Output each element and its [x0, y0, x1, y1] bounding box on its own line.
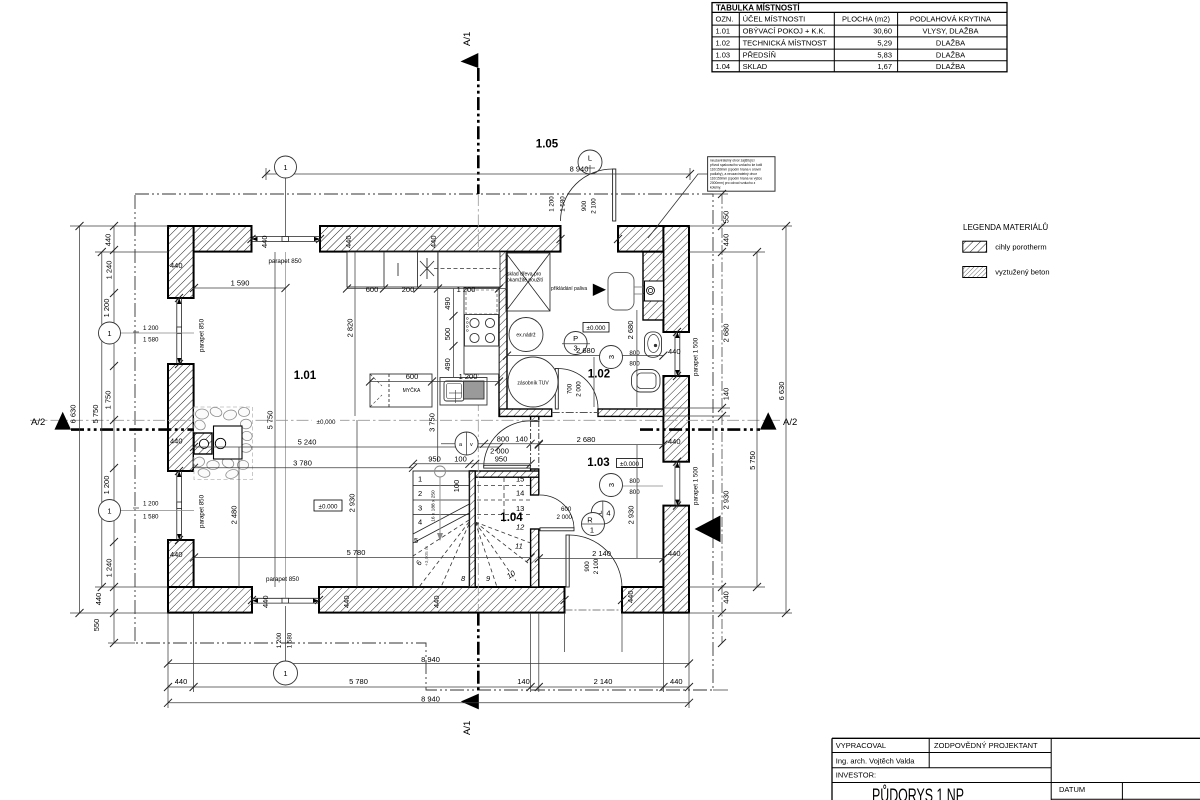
- svg-text:v: v: [470, 442, 473, 448]
- svg-text:1 200: 1 200: [457, 285, 476, 294]
- svg-text:100: 100: [454, 455, 467, 464]
- 1.02 window bubble 3: [600, 346, 641, 369]
- svg-text:VYPRACOVAL: VYPRACOVAL: [836, 741, 886, 750]
- svg-text:4: 4: [418, 518, 422, 527]
- svg-text:1 240: 1 240: [105, 559, 114, 578]
- ex.nadrz circle: [509, 318, 543, 352]
- svg-text:parapet 1 500: parapet 1 500: [693, 466, 700, 505]
- svg-text:440: 440: [668, 437, 681, 446]
- svg-text:1 750: 1 750: [104, 391, 113, 410]
- svg-text:2 000: 2 000: [576, 381, 583, 397]
- wall south seg2: [319, 587, 565, 613]
- level mark 1.03 boxed: [617, 459, 643, 468]
- wall B seg2: [531, 469, 539, 495]
- wall west seg3: [168, 540, 194, 613]
- svg-text:30,60: 30,60: [873, 27, 892, 36]
- wall east seg2: [663, 376, 689, 462]
- svg-text:2 100: 2 100: [593, 558, 600, 574]
- svg-text:podlahy), a neuzavíratelný otv: podlahy), a neuzavíratelný otvor: [710, 172, 758, 176]
- level mark 1.02 boxed: [583, 323, 609, 333]
- svg-text:1.02: 1.02: [716, 39, 731, 48]
- svg-text:6 630: 6 630: [69, 405, 78, 424]
- svg-text:5 240: 5 240: [298, 438, 317, 447]
- 1.03 window bubble 3: [600, 474, 664, 497]
- 1.02 sink: [645, 332, 662, 357]
- 1.02 wood storage crossed box: [506, 253, 550, 311]
- svg-text:440: 440: [429, 235, 438, 248]
- window V2 west lower: [177, 471, 182, 540]
- svg-text:3: 3: [418, 504, 422, 513]
- svg-text:440: 440: [260, 235, 269, 248]
- room table TABULKA MISTNOSTI: [712, 3, 1007, 72]
- svg-text:11: 11: [515, 542, 523, 551]
- svg-text:1.04: 1.04: [716, 62, 731, 71]
- 1.02 vertical dim 2680: [626, 310, 637, 407]
- bottom chain line2 segments: [164, 677, 693, 691]
- stair tread numbers: [414, 475, 525, 584]
- svg-text:+3,005 m: +3,005 m: [424, 546, 430, 566]
- svg-text:1: 1: [107, 329, 111, 338]
- stairs walking line: [435, 466, 446, 541]
- window E1 east upper: [675, 332, 680, 376]
- kitchen sink unit: [440, 378, 487, 406]
- zasobnik TUV circle: [508, 357, 558, 407]
- svg-text:2000mm) pro odvod vzduchu z: 2000mm) pro odvod vzduchu z: [710, 181, 756, 185]
- svg-text:ex.nádrž: ex.nádrž: [516, 333, 536, 339]
- section line A/1: [461, 32, 479, 735]
- svg-text:1.03: 1.03: [716, 50, 731, 59]
- svg-text:5: 5: [414, 536, 418, 545]
- right inner chain: [718, 190, 731, 647]
- svg-text:přikládání paliva: přikládání paliva: [551, 286, 587, 292]
- svg-text:vyztužený beton: vyztužený beton: [995, 268, 1049, 277]
- svg-text:1 590: 1 590: [231, 279, 250, 288]
- svg-text:1 580: 1 580: [287, 632, 294, 648]
- svg-text:1: 1: [590, 526, 594, 535]
- svg-text:440: 440: [722, 234, 731, 247]
- svg-text:2 930: 2 930: [348, 494, 357, 513]
- svg-text:zásobník TUV: zásobník TUV: [517, 381, 549, 387]
- svg-text:140: 140: [517, 677, 530, 686]
- door north to 1.05: [561, 169, 616, 221]
- svg-text:parapet 850: parapet 850: [199, 494, 206, 528]
- svg-text:3 750: 3 750: [428, 413, 437, 432]
- 1.03 dim 2680: [535, 435, 668, 449]
- top dimension chain 8940: [262, 165, 694, 179]
- svg-text:100: 100: [452, 480, 461, 493]
- svg-text:490: 490: [443, 297, 452, 310]
- svg-text:±0.000: ±0.000: [319, 504, 338, 511]
- svg-text:1 240: 1 240: [105, 261, 114, 280]
- svg-text:1: 1: [418, 475, 422, 484]
- svg-text:INVESTOR:: INVESTOR:: [836, 771, 876, 780]
- svg-text:2 820: 2 820: [346, 319, 355, 338]
- svg-text:OBÝVACÍ POKOJ + K.K.: OBÝVACÍ POKOJ + K.K.: [743, 27, 826, 36]
- svg-text:8 940: 8 940: [421, 694, 440, 703]
- svg-text:440: 440: [670, 677, 683, 686]
- wall A kitchen/1.02 divider: [499, 252, 507, 417]
- svg-text:2 100: 2 100: [591, 198, 598, 214]
- svg-text:2 480: 2 480: [230, 506, 239, 525]
- svg-text:5 750: 5 750: [91, 405, 100, 424]
- wall west seg2: [168, 364, 194, 471]
- svg-text:5,83: 5,83: [877, 50, 892, 59]
- legend LEGENDA MATERIALU: [963, 223, 1050, 278]
- svg-text:A/2: A/2: [31, 417, 45, 428]
- 1.01 interior dims: [190, 252, 535, 587]
- entry arrow triangle: [695, 515, 721, 542]
- stair spine wall: [469, 471, 475, 587]
- svg-text:15: 15: [516, 475, 524, 484]
- 1.02 small texts: [507, 272, 587, 387]
- svg-text:1 580: 1 580: [560, 196, 567, 212]
- svg-text:950: 950: [428, 455, 441, 464]
- 1.04 overhead dashed treads: [475, 477, 530, 587]
- svg-text:1 200: 1 200: [276, 632, 283, 648]
- svg-text:DATUM: DATUM: [1059, 785, 1085, 794]
- chimney flue circle: [647, 287, 655, 295]
- svg-text:800: 800: [629, 478, 640, 485]
- svg-text:cihly porotherm: cihly porotherm: [995, 242, 1046, 251]
- svg-text:5 750: 5 750: [748, 451, 757, 470]
- svg-text:140: 140: [515, 435, 528, 444]
- 1.03 dim 2140: [535, 549, 668, 562]
- wall north seg2: [320, 226, 561, 252]
- svg-text:800: 800: [497, 435, 510, 444]
- left outer chain 6630: [69, 222, 84, 617]
- svg-text:2 680: 2 680: [576, 346, 595, 355]
- svg-text:800: 800: [629, 489, 640, 496]
- door 1.02 to 1.03: [552, 369, 598, 413]
- left inner chain: [92, 222, 118, 647]
- svg-text:5 780: 5 780: [349, 677, 368, 686]
- svg-text:PŮDORYS 1 NP: PŮDORYS 1 NP: [872, 785, 964, 800]
- svg-text:440: 440: [94, 593, 103, 606]
- svg-text:440: 440: [344, 235, 353, 248]
- svg-text:SKLAD: SKLAD: [743, 62, 768, 71]
- svg-text:4: 4: [606, 509, 610, 518]
- svg-text:P: P: [573, 334, 578, 343]
- extension lines: [70, 168, 792, 708]
- fireplace stone surround: [192, 406, 253, 480]
- svg-text:440: 440: [668, 549, 681, 558]
- kitchen dim 3750: [428, 252, 438, 462]
- entrance door south: [565, 535, 623, 610]
- svg-text:950: 950: [495, 455, 508, 464]
- svg-text:1,67: 1,67: [877, 62, 892, 71]
- svg-text:2: 2: [418, 489, 422, 498]
- right middle chain 5750: [748, 248, 761, 591]
- kitchen island dishwasher MYCKA: [370, 374, 432, 407]
- svg-text:440: 440: [104, 234, 113, 247]
- svg-text:14: 14: [516, 489, 524, 498]
- stove with burners: [465, 315, 499, 347]
- svg-text:1 200: 1 200: [143, 501, 159, 508]
- level mark 1.01 boxed: [314, 500, 342, 511]
- grid bubble 1 left upper: [99, 322, 195, 344]
- chimney note box: [648, 157, 775, 238]
- svg-text:900: 900: [584, 561, 591, 572]
- svg-text:5,29: 5,29: [877, 39, 892, 48]
- svg-text:2 140: 2 140: [594, 677, 613, 686]
- stairs winder dashed treads left: [413, 520, 469, 587]
- svg-text:2 680: 2 680: [626, 321, 635, 340]
- grid bubble 1 bottom: [274, 606, 298, 685]
- svg-text:440: 440: [626, 590, 635, 603]
- svg-text:490: 490: [443, 358, 452, 371]
- stairs lower flight treads: [413, 471, 469, 587]
- svg-text:1 200: 1 200: [459, 372, 478, 381]
- svg-text:140: 140: [722, 388, 731, 401]
- roof overhang dash-dot outline: [135, 194, 713, 690]
- svg-text:parapet 1 500: parapet 1 500: [693, 337, 700, 376]
- svg-text:1 200: 1 200: [143, 325, 159, 332]
- svg-text:1.01: 1.01: [294, 370, 317, 382]
- svg-text:800: 800: [629, 350, 640, 357]
- wall 1.02 bottom left: [500, 409, 552, 416]
- 1.03 vertical dim 2930: [627, 445, 638, 559]
- wall B seg3: [531, 529, 539, 587]
- svg-text:parapet 850: parapet 850: [199, 318, 206, 352]
- left middle chain 5750: [91, 248, 106, 591]
- svg-text:3: 3: [607, 483, 616, 487]
- bottom chain line3 8940: [164, 694, 693, 707]
- grid bubble 1 top: [275, 156, 297, 598]
- svg-text:440: 440: [722, 591, 731, 604]
- kitchen right counter band: [464, 288, 499, 374]
- svg-text:440: 440: [170, 550, 183, 559]
- svg-text:1.01: 1.01: [716, 27, 731, 36]
- wall east seg1: [663, 226, 689, 332]
- svg-text:3 780: 3 780: [293, 459, 312, 468]
- jamb tick marks: [175, 235, 681, 604]
- svg-text:A/1: A/1: [462, 721, 473, 735]
- svg-text:1 200: 1 200: [102, 476, 111, 495]
- svg-text:2 140: 2 140: [592, 549, 611, 558]
- title block: [832, 738, 1200, 800]
- svg-text:DLAŽBA: DLAŽBA: [936, 62, 965, 71]
- svg-text:8 940: 8 940: [421, 655, 440, 664]
- fireplace insert: [214, 426, 243, 459]
- right outer chain 6630: [777, 222, 790, 617]
- svg-text:2 000: 2 000: [557, 514, 573, 521]
- svg-text:Ing. arch. Vojtěch Valda: Ing. arch. Vojtěch Valda: [836, 756, 915, 765]
- grid bubble 1 left lower: [99, 500, 195, 522]
- svg-text:LEGENDA MATERIÁLŮ: LEGENDA MATERIÁLŮ: [963, 223, 1048, 232]
- svg-text:440: 440: [170, 261, 183, 270]
- svg-text:440: 440: [668, 347, 681, 356]
- svg-text:550: 550: [92, 619, 101, 632]
- svg-text:440: 440: [342, 595, 351, 608]
- door 1.03 to 1.04: [540, 495, 574, 531]
- door 1.03 to landing 800/2000: [484, 421, 531, 468]
- svg-text:±0.000: ±0.000: [620, 461, 639, 468]
- svg-text:550: 550: [722, 211, 731, 224]
- 1.02 boiler: [608, 273, 634, 310]
- svg-text:1: 1: [283, 163, 287, 172]
- svg-text:600: 600: [561, 506, 572, 513]
- window E2 east lower: [675, 462, 680, 506]
- svg-text:OZN.: OZN.: [716, 14, 734, 23]
- svg-text:2 680: 2 680: [722, 324, 731, 343]
- wall east seg3: [663, 506, 689, 613]
- stair landing dims 950/100/950: [409, 455, 535, 493]
- svg-text:R: R: [587, 516, 593, 525]
- wall south seg1: [168, 587, 252, 613]
- wall north seg1: [168, 226, 252, 252]
- fireplace stub wall: [194, 433, 212, 454]
- svg-text:VLYSY, DLAŽBA: VLYSY, DLAŽBA: [922, 27, 978, 36]
- svg-text:200: 200: [402, 285, 415, 294]
- door type bubble L: [578, 150, 602, 174]
- chimney block: [643, 252, 663, 320]
- landing marker bubble: [455, 432, 478, 455]
- section line A/2: [30, 412, 797, 430]
- 1.02 toilet: [632, 370, 661, 393]
- svg-text:MYČKA: MYČKA: [403, 387, 421, 394]
- svg-text:500: 500: [443, 328, 452, 341]
- svg-text:1.03: 1.03: [587, 457, 609, 469]
- svg-text:±0.000: ±0.000: [587, 325, 606, 332]
- svg-text:800: 800: [629, 361, 640, 368]
- svg-text:1.02: 1.02: [588, 369, 610, 381]
- svg-text:parapet 850: parapet 850: [268, 258, 302, 265]
- svg-text:A/2: A/2: [783, 417, 797, 428]
- svg-text:110/150mm (spodní hrana v úrov: 110/150mm (spodní hrana v úrovni: [710, 167, 761, 171]
- svg-text:okamžité použití: okamžité použití: [507, 278, 544, 284]
- svg-text:5 780: 5 780: [347, 548, 366, 557]
- wall 1.02 bottom right: [598, 409, 663, 416]
- svg-text:ZODPOVĚDNÝ PROJEKTANT: ZODPOVĚDNÝ PROJEKTANT: [934, 741, 1038, 750]
- svg-text:1 580: 1 580: [143, 514, 159, 521]
- svg-text:440: 440: [175, 677, 188, 686]
- svg-text:6 630: 6 630: [777, 382, 786, 401]
- kitchen boiler X mark: [420, 258, 500, 279]
- svg-text:700: 700: [567, 383, 574, 394]
- wall north seg3: [618, 226, 689, 252]
- window S1: [252, 598, 319, 603]
- svg-text:600: 600: [406, 372, 419, 381]
- wall west seg1: [168, 226, 194, 298]
- svg-text:1: 1: [107, 507, 111, 516]
- wall B overhead dashes: [530, 421, 532, 467]
- svg-text:2 930: 2 930: [627, 506, 636, 525]
- svg-text:A/1: A/1: [462, 32, 473, 46]
- svg-text:neuzavíratelný otvor zajišťují: neuzavíratelný otvor zajišťující: [710, 158, 755, 162]
- svg-text:L: L: [588, 154, 592, 163]
- svg-text:PŘEDSÍŇ: PŘEDSÍŇ: [743, 50, 776, 59]
- wall south seg3: [622, 587, 689, 613]
- svg-text:16 x 188 x 250: 16 x 188 x 250: [431, 490, 437, 522]
- window V1 west upper: [177, 298, 182, 364]
- svg-text:1.04: 1.04: [500, 512, 523, 524]
- svg-text:2 680: 2 680: [577, 435, 596, 444]
- svg-text:±0,000: ±0,000: [317, 419, 336, 426]
- kitchen dims: [343, 285, 507, 395]
- chimney niche: [645, 281, 664, 301]
- bottom chain line1 8940: [164, 655, 693, 668]
- svg-text:440: 440: [432, 595, 441, 608]
- svg-text:1 200: 1 200: [102, 299, 111, 318]
- svg-text:1: 1: [283, 669, 287, 678]
- svg-text:440: 440: [261, 595, 270, 608]
- svg-text:PLOCHA (m2): PLOCHA (m2): [842, 14, 890, 23]
- svg-text:DLAŽBA: DLAŽBA: [936, 50, 965, 59]
- svg-text:3: 3: [607, 355, 616, 359]
- svg-text:ÚČEL MÍSTNOSTI: ÚČEL MÍSTNOSTI: [743, 14, 806, 23]
- 1.02 dim 2680: [503, 346, 667, 360]
- svg-text:2 930: 2 930: [722, 491, 731, 510]
- landing door dims 800/140/2000: [441, 435, 543, 456]
- svg-text:440: 440: [170, 437, 183, 446]
- svg-text:900: 900: [581, 200, 588, 211]
- kitchen top counter: [347, 252, 500, 287]
- svg-text:5 750: 5 750: [266, 411, 275, 430]
- wall 1.04 top: [469, 471, 538, 477]
- svg-text:TECHNICKÁ MÍSTNOST: TECHNICKÁ MÍSTNOST: [743, 39, 828, 48]
- svg-text:600: 600: [366, 285, 379, 294]
- level mark 1.01 plain: [312, 417, 340, 427]
- svg-text:kotelny.: kotelny.: [710, 185, 721, 189]
- 1.02 door bubble P3: [562, 332, 590, 355]
- prikladani paliva arrow: [593, 284, 606, 296]
- svg-text:DLAŽBA: DLAŽBA: [936, 39, 965, 48]
- svg-text:parapet 850: parapet 850: [266, 576, 300, 583]
- svg-text:1 580: 1 580: [143, 337, 159, 344]
- 1.03 door bubbles L4 R1: [582, 501, 615, 536]
- svg-text:TABULKA MÍSTNOSTÍ: TABULKA MÍSTNOSTÍ: [716, 4, 800, 13]
- svg-text:1 200: 1 200: [549, 196, 556, 212]
- svg-text:110/150mm (spodní hrana ve výš: 110/150mm (spodní hrana ve výšce: [710, 176, 762, 180]
- svg-text:PODLAHOVÁ KRYTINA: PODLAHOVÁ KRYTINA: [910, 14, 991, 23]
- svg-text:1.05: 1.05: [536, 139, 559, 151]
- wall B seg1 cap: [531, 416, 539, 421]
- svg-text:přívod spalovacího vzduchu ke: přívod spalovacího vzduchu ke kotli: [710, 163, 762, 167]
- window N1: [252, 237, 321, 242]
